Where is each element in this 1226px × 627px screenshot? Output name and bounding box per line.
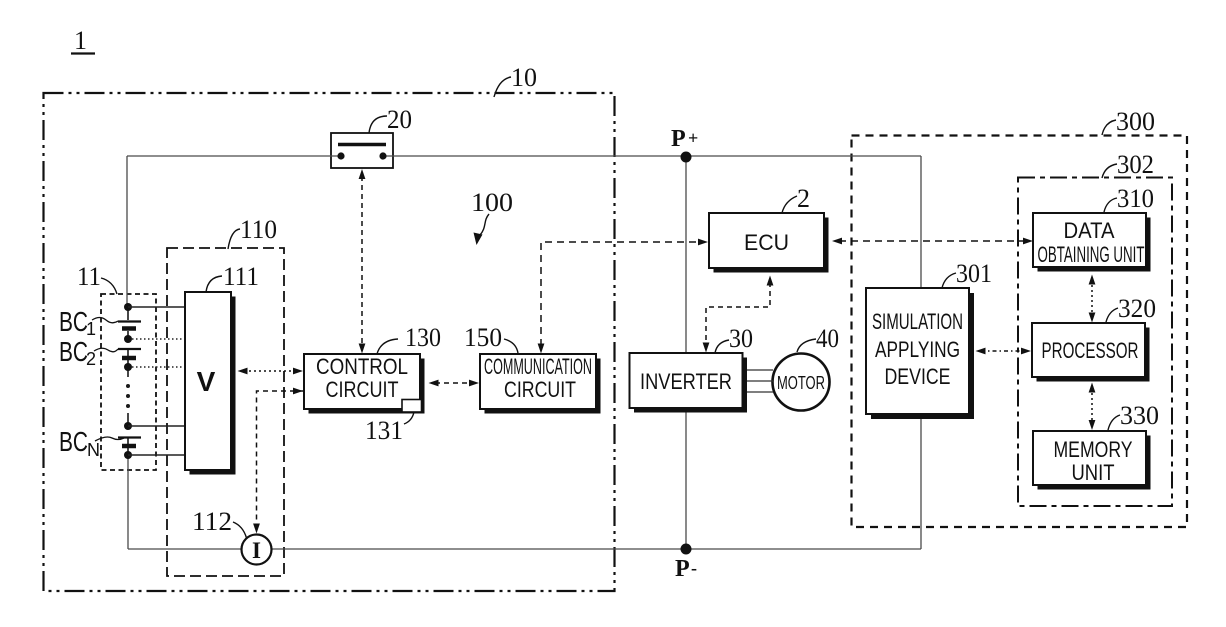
node 2 label (782, 184, 810, 213)
svg-text:OBTAINING UNIT: OBTAINING UNIT (1038, 242, 1145, 267)
control circuit 130 (304, 354, 425, 414)
battery cell BC1 (118, 322, 141, 329)
battery ellipsis dots (126, 384, 130, 388)
svg-text:UNIT: UNIT (1072, 460, 1115, 485)
node 30 label (715, 324, 753, 353)
control device boundary box 302 (1018, 178, 1172, 507)
node P- (675, 544, 697, 583)
ECU box 2 (709, 213, 829, 273)
node 310 label (1104, 184, 1154, 213)
svg-text:CONTROL: CONTROL (316, 354, 408, 379)
svg-text:CIRCUIT: CIRCUIT (504, 377, 576, 402)
communication circuit 150 (480, 354, 601, 414)
simulation system boundary box 300 (852, 136, 1188, 528)
svg-text:-: - (691, 558, 697, 578)
dotted link simulation device to processor (976, 348, 1032, 355)
svg-text:P: P (675, 556, 690, 582)
node 112 label (192, 507, 247, 538)
svg-text:DATA: DATA (1064, 218, 1115, 243)
dashed link ECU to inverter (703, 276, 774, 353)
label BC2 (59, 336, 118, 369)
battery cell BCN (118, 438, 141, 447)
svg-text:2: 2 (86, 349, 96, 369)
svg-text:310: 310 (1117, 184, 1154, 213)
sense wire tap4 to V (128, 425, 185, 427)
memory unit 330 (1033, 431, 1151, 490)
svg-text:INVERTER: INVERTER (640, 369, 732, 394)
voltage measuring unit 111 (V box) (185, 292, 236, 475)
battery tap node 3 (124, 363, 132, 371)
svg-text:11: 11 (77, 262, 101, 291)
node label 1 (figure title) (71, 26, 95, 55)
current sensor 112 (I circle) (242, 535, 272, 565)
svg-text:2: 2 (797, 184, 810, 213)
node 131 label (365, 412, 414, 445)
node 300 label (1102, 107, 1155, 136)
node 330 label (1108, 401, 1159, 430)
svg-text:PROCESSOR: PROCESSOR (1042, 338, 1139, 363)
node P+ (671, 126, 698, 163)
svg-text:30: 30 (729, 324, 753, 353)
node 11 label (77, 262, 117, 294)
node 100 label with arrow (471, 188, 513, 245)
svg-text:112: 112 (192, 507, 232, 536)
battery cell BC2 (118, 349, 141, 358)
svg-text:1: 1 (74, 26, 87, 55)
battery tap node 4 (124, 422, 132, 430)
svg-text:BC: BC (59, 336, 88, 367)
svg-text:301: 301 (956, 259, 992, 288)
battery string vertical wire (127, 307, 129, 455)
inverter 30 (630, 353, 748, 413)
battery tap node 5 (124, 451, 132, 459)
sense wire tap1 to V (128, 306, 185, 308)
svg-text:+: + (688, 128, 698, 148)
svg-text:131: 131 (365, 416, 403, 445)
svg-text:ECU: ECU (744, 230, 789, 255)
svg-text:V: V (197, 366, 216, 397)
svg-text:110: 110 (240, 215, 277, 244)
svg-text:20: 20 (387, 105, 412, 134)
dashed link ECU to data obtaining unit (832, 238, 1033, 245)
dashed link control to communication (429, 380, 480, 387)
switch contact dots (337, 152, 344, 159)
wire top power rail (127, 155, 921, 157)
svg-text:100: 100 (471, 188, 513, 217)
node 301 label (942, 259, 992, 288)
svg-text:40: 40 (816, 324, 839, 353)
arrow into control circuit from I line (293, 388, 303, 395)
dotted link V to control circuit (238, 368, 304, 375)
sense wire tap2 to V (dotted) (132, 338, 185, 340)
label BCN (59, 426, 124, 460)
svg-text:320: 320 (1118, 294, 1156, 323)
measuring unit boundary box 110 (167, 248, 284, 576)
battery tap node 2 (124, 335, 132, 343)
node 20 label (369, 105, 412, 134)
svg-text:MEMORY: MEMORY (1054, 437, 1133, 462)
svg-text:10: 10 (511, 63, 537, 92)
svg-text:DEVICE: DEVICE (885, 364, 951, 389)
sense wire tap3 to V (dotted) (132, 366, 185, 368)
node 111 label (206, 262, 259, 292)
node 10 label (494, 63, 537, 97)
dotted link processor to memory unit (1089, 383, 1096, 431)
svg-text:130: 130 (405, 323, 441, 352)
wire battery positive to top rail (126, 156, 128, 307)
simulation applying device 301 (866, 288, 974, 419)
svg-text:I: I (252, 538, 261, 563)
wire P+ vertical feed (685, 157, 687, 549)
node 40 label (797, 324, 839, 353)
svg-text:BC: BC (59, 306, 88, 337)
node 130 label (377, 323, 441, 354)
battery tap node 1 (124, 303, 132, 311)
svg-text:MOTOR: MOTOR (777, 373, 825, 393)
wire right power rail (920, 156, 922, 549)
label BC1 (59, 306, 118, 339)
svg-text:APPLYING: APPLYING (875, 337, 960, 362)
wire bottom power rail (128, 548, 921, 550)
svg-text:300: 300 (1116, 107, 1155, 136)
svg-text:330: 330 (1120, 401, 1159, 430)
data obtaining unit 310 (1033, 213, 1151, 272)
motor 40 (773, 354, 830, 411)
svg-text:CIRCUIT: CIRCUIT (326, 377, 399, 402)
svg-text:150: 150 (464, 323, 502, 352)
dashed link switch 20 to control circuit (359, 169, 366, 354)
wire battery negative to bottom rail (127, 455, 129, 549)
sub-block 131 (402, 400, 422, 413)
dotted link data unit to processor (1089, 275, 1096, 323)
node 150 label (464, 323, 518, 353)
svg-text:N: N (87, 440, 100, 460)
dashed link communication to ECU (538, 239, 708, 354)
svg-text:SIMULATION: SIMULATION (872, 309, 963, 334)
svg-text:COMMUNICATION: COMMUNICATION (484, 354, 592, 379)
battery cell group box 11 (101, 294, 156, 470)
relay switch 20 (331, 133, 393, 168)
node 302 label (1102, 150, 1154, 179)
three-phase wires inverter to motor (747, 370, 773, 392)
sense wire tap5 to V (128, 454, 185, 456)
dashed link I sensor to control circuit (253, 391, 304, 534)
svg-text:111: 111 (223, 262, 259, 291)
svg-text:302: 302 (1117, 150, 1154, 179)
svg-text:BC: BC (59, 426, 88, 457)
svg-text:P: P (671, 126, 686, 152)
node 320 label (1106, 294, 1156, 323)
node 110 label (228, 215, 277, 249)
battery pack boundary box 10 (44, 93, 615, 591)
processor 320 (1032, 323, 1150, 382)
